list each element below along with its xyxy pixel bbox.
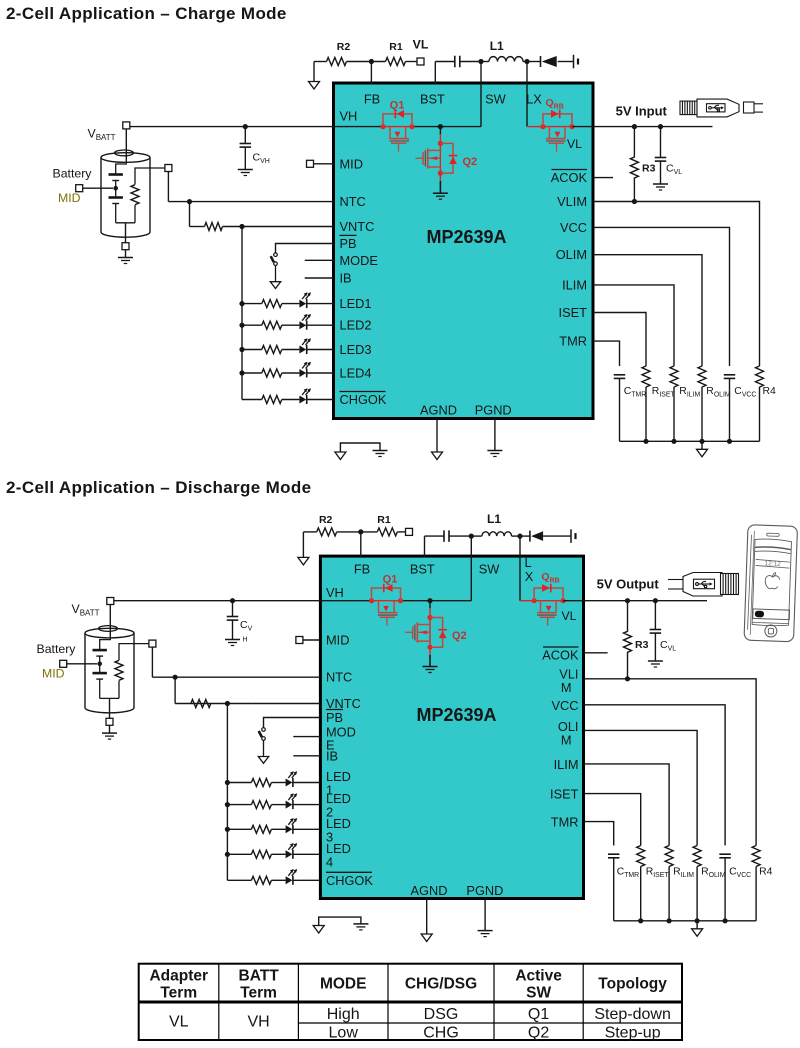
- svg-text:MID: MID: [58, 191, 81, 205]
- svg-text:Topology: Topology: [598, 976, 667, 993]
- svg-text:VCC: VCC: [551, 698, 578, 713]
- svg-text:R3: R3: [642, 163, 656, 175]
- svg-text:4: 4: [326, 854, 333, 869]
- svg-text:Q1: Q1: [528, 1006, 549, 1023]
- svg-text:VL: VL: [561, 609, 576, 623]
- svg-text:ILIM: ILIM: [554, 757, 579, 772]
- svg-text:OLIM: OLIM: [556, 247, 587, 262]
- svg-text:PGND: PGND: [466, 883, 503, 898]
- svg-text:Term: Term: [160, 985, 197, 1002]
- svg-text:MID: MID: [326, 633, 349, 648]
- svg-text:LED2: LED2: [340, 318, 372, 333]
- svg-text:LED4: LED4: [340, 366, 372, 381]
- svg-text:Q2: Q2: [528, 1025, 549, 1042]
- svg-text:R1: R1: [389, 41, 403, 53]
- svg-text:DSG: DSG: [424, 1006, 459, 1023]
- svg-text:VH: VH: [326, 585, 344, 600]
- svg-text:PGND: PGND: [475, 403, 512, 418]
- svg-text:BST: BST: [410, 562, 435, 577]
- svg-text:R2: R2: [319, 514, 333, 526]
- svg-text:LED1: LED1: [340, 296, 372, 311]
- svg-text:VCC: VCC: [560, 220, 587, 235]
- svg-text:High: High: [327, 1006, 360, 1023]
- svg-text:BATT: BATT: [239, 968, 280, 985]
- svg-text:M: M: [561, 732, 572, 747]
- svg-text:SW: SW: [479, 562, 501, 577]
- svg-text:2-Cell Application – Discharge: 2-Cell Application – Discharge Mode: [6, 478, 311, 497]
- svg-text:VNTC: VNTC: [340, 219, 375, 234]
- svg-text:VNTC: VNTC: [326, 696, 361, 711]
- svg-text:LED3: LED3: [340, 342, 372, 357]
- svg-text:CHGOK: CHGOK: [326, 873, 373, 888]
- svg-text:VL: VL: [169, 1014, 189, 1031]
- svg-text:SW: SW: [526, 985, 551, 1002]
- svg-text:NTC: NTC: [340, 194, 366, 209]
- svg-text:Q1: Q1: [390, 100, 405, 112]
- svg-text:Battery: Battery: [37, 642, 77, 656]
- svg-text:Battery: Battery: [53, 167, 93, 181]
- svg-text:R4: R4: [763, 386, 777, 397]
- svg-text:Step-up: Step-up: [605, 1025, 661, 1042]
- svg-text:H: H: [243, 637, 248, 644]
- svg-text:VL: VL: [413, 38, 429, 52]
- svg-text:VL: VL: [567, 137, 582, 151]
- svg-text:R4: R4: [759, 867, 773, 878]
- svg-text:L1: L1: [490, 39, 504, 53]
- svg-text:VH: VH: [247, 1014, 269, 1031]
- svg-text:M: M: [561, 680, 572, 695]
- svg-text:R3: R3: [635, 639, 649, 651]
- svg-text:AGND: AGND: [411, 883, 448, 898]
- svg-text:IB: IB: [326, 748, 338, 763]
- svg-text:ISET: ISET: [550, 787, 579, 802]
- svg-text:ISET: ISET: [559, 305, 588, 320]
- svg-text:PB: PB: [326, 710, 343, 725]
- svg-text:L: L: [524, 555, 531, 570]
- svg-text:5V Input: 5V Input: [616, 104, 668, 119]
- svg-text:MP2639A: MP2639A: [426, 227, 506, 247]
- svg-text:R2: R2: [337, 41, 351, 53]
- svg-text:X: X: [525, 569, 534, 584]
- svg-text:Step-down: Step-down: [594, 1006, 671, 1023]
- svg-text:VH: VH: [340, 108, 358, 123]
- svg-text:Q2: Q2: [463, 156, 478, 168]
- svg-text:LX: LX: [526, 92, 542, 107]
- svg-text:5V Output: 5V Output: [597, 577, 660, 592]
- svg-text:CHGOK: CHGOK: [340, 392, 387, 407]
- svg-text:L1: L1: [487, 512, 501, 526]
- svg-text:VLIM: VLIM: [557, 194, 587, 209]
- svg-text:SW: SW: [485, 92, 507, 107]
- svg-text:ACOK: ACOK: [551, 170, 588, 185]
- svg-text:IB: IB: [340, 271, 352, 286]
- svg-text:Term: Term: [240, 985, 277, 1002]
- svg-text:Q2: Q2: [452, 630, 467, 642]
- svg-text:MODE: MODE: [320, 976, 367, 993]
- svg-text:Adapter: Adapter: [149, 968, 208, 985]
- svg-text:BST: BST: [420, 92, 445, 107]
- svg-text:TMR: TMR: [559, 334, 587, 349]
- svg-text:NTC: NTC: [326, 670, 352, 685]
- svg-text:CHG: CHG: [423, 1025, 459, 1042]
- svg-text:MID: MID: [42, 667, 65, 681]
- svg-text:CHG/DSG: CHG/DSG: [405, 976, 477, 993]
- svg-text:Q1: Q1: [383, 574, 398, 586]
- svg-text:MODE: MODE: [340, 253, 378, 268]
- svg-text:TMR: TMR: [551, 815, 579, 830]
- svg-text:12:12: 12:12: [764, 560, 781, 568]
- svg-text:AGND: AGND: [420, 403, 457, 418]
- svg-text:PB: PB: [340, 236, 357, 251]
- svg-text:ILIM: ILIM: [562, 277, 587, 292]
- svg-text:FB: FB: [364, 92, 380, 107]
- svg-text:MP2639A: MP2639A: [416, 705, 496, 725]
- svg-text:Low: Low: [329, 1025, 359, 1042]
- svg-text:ACOK: ACOK: [542, 648, 579, 663]
- svg-text:R1: R1: [377, 514, 391, 526]
- svg-text:2-Cell Application – Charge Mo: 2-Cell Application – Charge Mode: [6, 4, 287, 23]
- svg-text:FB: FB: [354, 562, 370, 577]
- svg-text:Active: Active: [515, 968, 562, 985]
- svg-text:MID: MID: [340, 156, 363, 171]
